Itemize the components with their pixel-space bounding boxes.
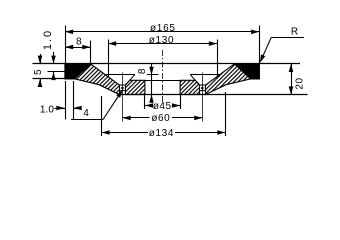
dim ø45 left extension	[144, 95, 146, 109]
dim 4 horizontal line	[71, 119, 103, 121]
svg-text:1.0: 1.0	[42, 29, 54, 50]
dim ø45 right stub	[175, 105, 181, 107]
dim 8 rim right extension	[90, 41, 92, 64]
dim 1.0 edge left extension	[65, 81, 67, 120]
label R leader underline	[271, 37, 304, 39]
dim 1.0 edge right arrow	[74, 106, 82, 111]
right web (hatched)	[205, 64, 251, 95]
dim 5 top segment	[40, 54, 42, 64]
dim ø165 line	[65, 31, 259, 33]
dim ø130 left arrow	[108, 41, 116, 46]
recess floor stub at dim 8	[147, 74, 159, 76]
dim ø134 left stub	[101, 132, 148, 134]
dim 8 hub line	[151, 64, 153, 100]
dim 20 top arrow	[289, 64, 294, 72]
dim 8 hub bottom arrow	[149, 95, 154, 103]
dim 5 bottom segment	[40, 79, 42, 87]
dim 5 top arrow	[38, 56, 43, 64]
wheel body section: right abrasive rim (solid)	[235, 64, 260, 79]
hub bottom line	[120, 94, 308, 96]
dim 4 leader arrow	[116, 90, 122, 98]
dim ø165 left arrow	[65, 30, 73, 35]
svg-text:ø45: ø45	[153, 101, 172, 112]
dim 1.0 depth bottom arrow segment	[53, 72, 55, 80]
dim 1.0 depth top arrow	[51, 56, 56, 64]
recess floor far edge right (countersink top)	[190, 74, 220, 76]
recess floor far edge left (countersink top)	[105, 74, 135, 76]
right hole centerline	[202, 73, 204, 122]
top face line	[33, 63, 301, 65]
dim ø45 right extension	[180, 95, 182, 109]
dim ø130 line	[108, 43, 217, 45]
dim 1.0 edge right extension	[73, 81, 75, 120]
dim 5 bottom arrow	[38, 79, 43, 87]
dim 8 rim line	[65, 47, 91, 49]
dim 8 rim left arrow	[65, 45, 73, 50]
svg-text:20: 20	[295, 77, 306, 89]
right hub block (hatched)	[180, 80, 200, 94]
svg-text:ø60: ø60	[151, 113, 170, 124]
dim 20 bottom arrow	[289, 86, 294, 94]
dim 1.0 edge left arrow	[56, 106, 64, 111]
dim ø134 right stub	[175, 132, 226, 134]
dim ø134 right extension	[225, 92, 227, 136]
right hole square outline	[200, 85, 206, 91]
svg-text:ø134: ø134	[149, 128, 174, 139]
svg-text:1.0: 1.0	[40, 104, 55, 115]
label R leader diagonal	[261, 37, 272, 61]
left hub block (hatched)	[125, 80, 144, 94]
svg-text:ø130: ø130	[149, 35, 175, 46]
left countersink inner edge	[125, 75, 134, 85]
dim ø134 left extension	[101, 96, 103, 136]
svg-text:4: 4	[83, 108, 89, 119]
left web (hatched)	[75, 64, 120, 95]
dim ø165 right arrow	[251, 30, 259, 35]
dim 20 line	[291, 64, 293, 95]
dim 8 hub top arrow	[149, 67, 154, 75]
wheel body section: left abrasive rim (solid)	[65, 64, 91, 79]
svg-text:8: 8	[76, 37, 82, 48]
hub top line across bore	[145, 80, 180, 82]
dim ø60 right arrow	[194, 116, 202, 121]
dim ø60 right stub	[172, 117, 202, 119]
dim 1.0 edge left arrow segment	[55, 108, 66, 110]
left hole center dot	[121, 87, 124, 90]
dim ø130 right arrow	[209, 41, 217, 46]
dim 1.0 edge right arrow segment	[73, 108, 81, 110]
dim ø165 right extension	[259, 26, 261, 64]
dim ø130 left extension	[108, 40, 110, 77]
label R leader arrow	[260, 54, 265, 62]
dim 4 leader diagonal	[103, 91, 122, 120]
right countersink inner edge	[190, 75, 199, 85]
left rim bottom line	[33, 78, 75, 80]
dim ø130 right extension	[217, 40, 219, 77]
left abrasive depth line	[48, 71, 66, 73]
dim ø45 left stub	[145, 105, 151, 107]
dim 8 rim right arrow	[82, 45, 90, 50]
svg-text:ø165: ø165	[150, 23, 176, 34]
dim ø60 left arrow	[123, 116, 131, 121]
dim ø134 left arrow	[101, 130, 109, 135]
dim ø60 left stub	[123, 117, 150, 119]
dim ø165 left extension	[65, 26, 67, 64]
dim 1.0 depth bottom arrow	[51, 72, 56, 80]
svg-text:R: R	[291, 27, 299, 38]
dim ø45 left arrow	[145, 103, 153, 108]
svg-text:5: 5	[33, 69, 44, 75]
right hole center dot	[201, 87, 204, 90]
svg-text:8: 8	[137, 68, 148, 74]
dim ø45 right arrow	[172, 103, 180, 108]
left hole centerline	[122, 73, 124, 122]
dim 1.0 depth line	[53, 52, 55, 64]
left hole square outline	[120, 85, 126, 91]
dim ø134 right arrow	[217, 130, 225, 135]
wheel axis centerline	[162, 50, 164, 103]
